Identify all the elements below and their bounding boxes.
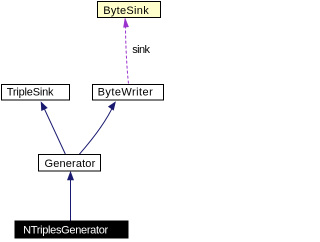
svg-text:ByteWriter: ByteWriter (98, 87, 154, 99)
node NTriplesGenerator (15, 221, 128, 238)
arrowhead to ByteWriter (108, 101, 116, 110)
wire: inheritance edge Generator to TripleSink (44, 109, 65, 155)
node Generator (39, 155, 101, 172)
node ByteSink (98, 2, 161, 18)
wire: inheritance edge NTriplesGenerator to Generator (70, 180, 72, 222)
wire: usage edge ByteWriter to ByteSink (dashed) (126, 27, 129, 83)
node TripleSink (2, 85, 70, 101)
arrowhead to TripleSink (41, 101, 48, 111)
svg-text:NTriplesGenerator: NTriplesGenerator (23, 225, 108, 237)
node ByteWriter (93, 85, 164, 101)
arrowhead to ByteSink (123, 17, 129, 27)
svg-text:ByteSink: ByteSink (103, 5, 149, 17)
wire: inheritance edge Generator to ByteWriter (79, 103, 114, 154)
svg-text:Generator: Generator (45, 158, 96, 170)
svg-text:sink: sink (132, 44, 150, 56)
arrowhead to Generator (67, 171, 74, 180)
svg-text:TripleSink: TripleSink (7, 87, 54, 99)
